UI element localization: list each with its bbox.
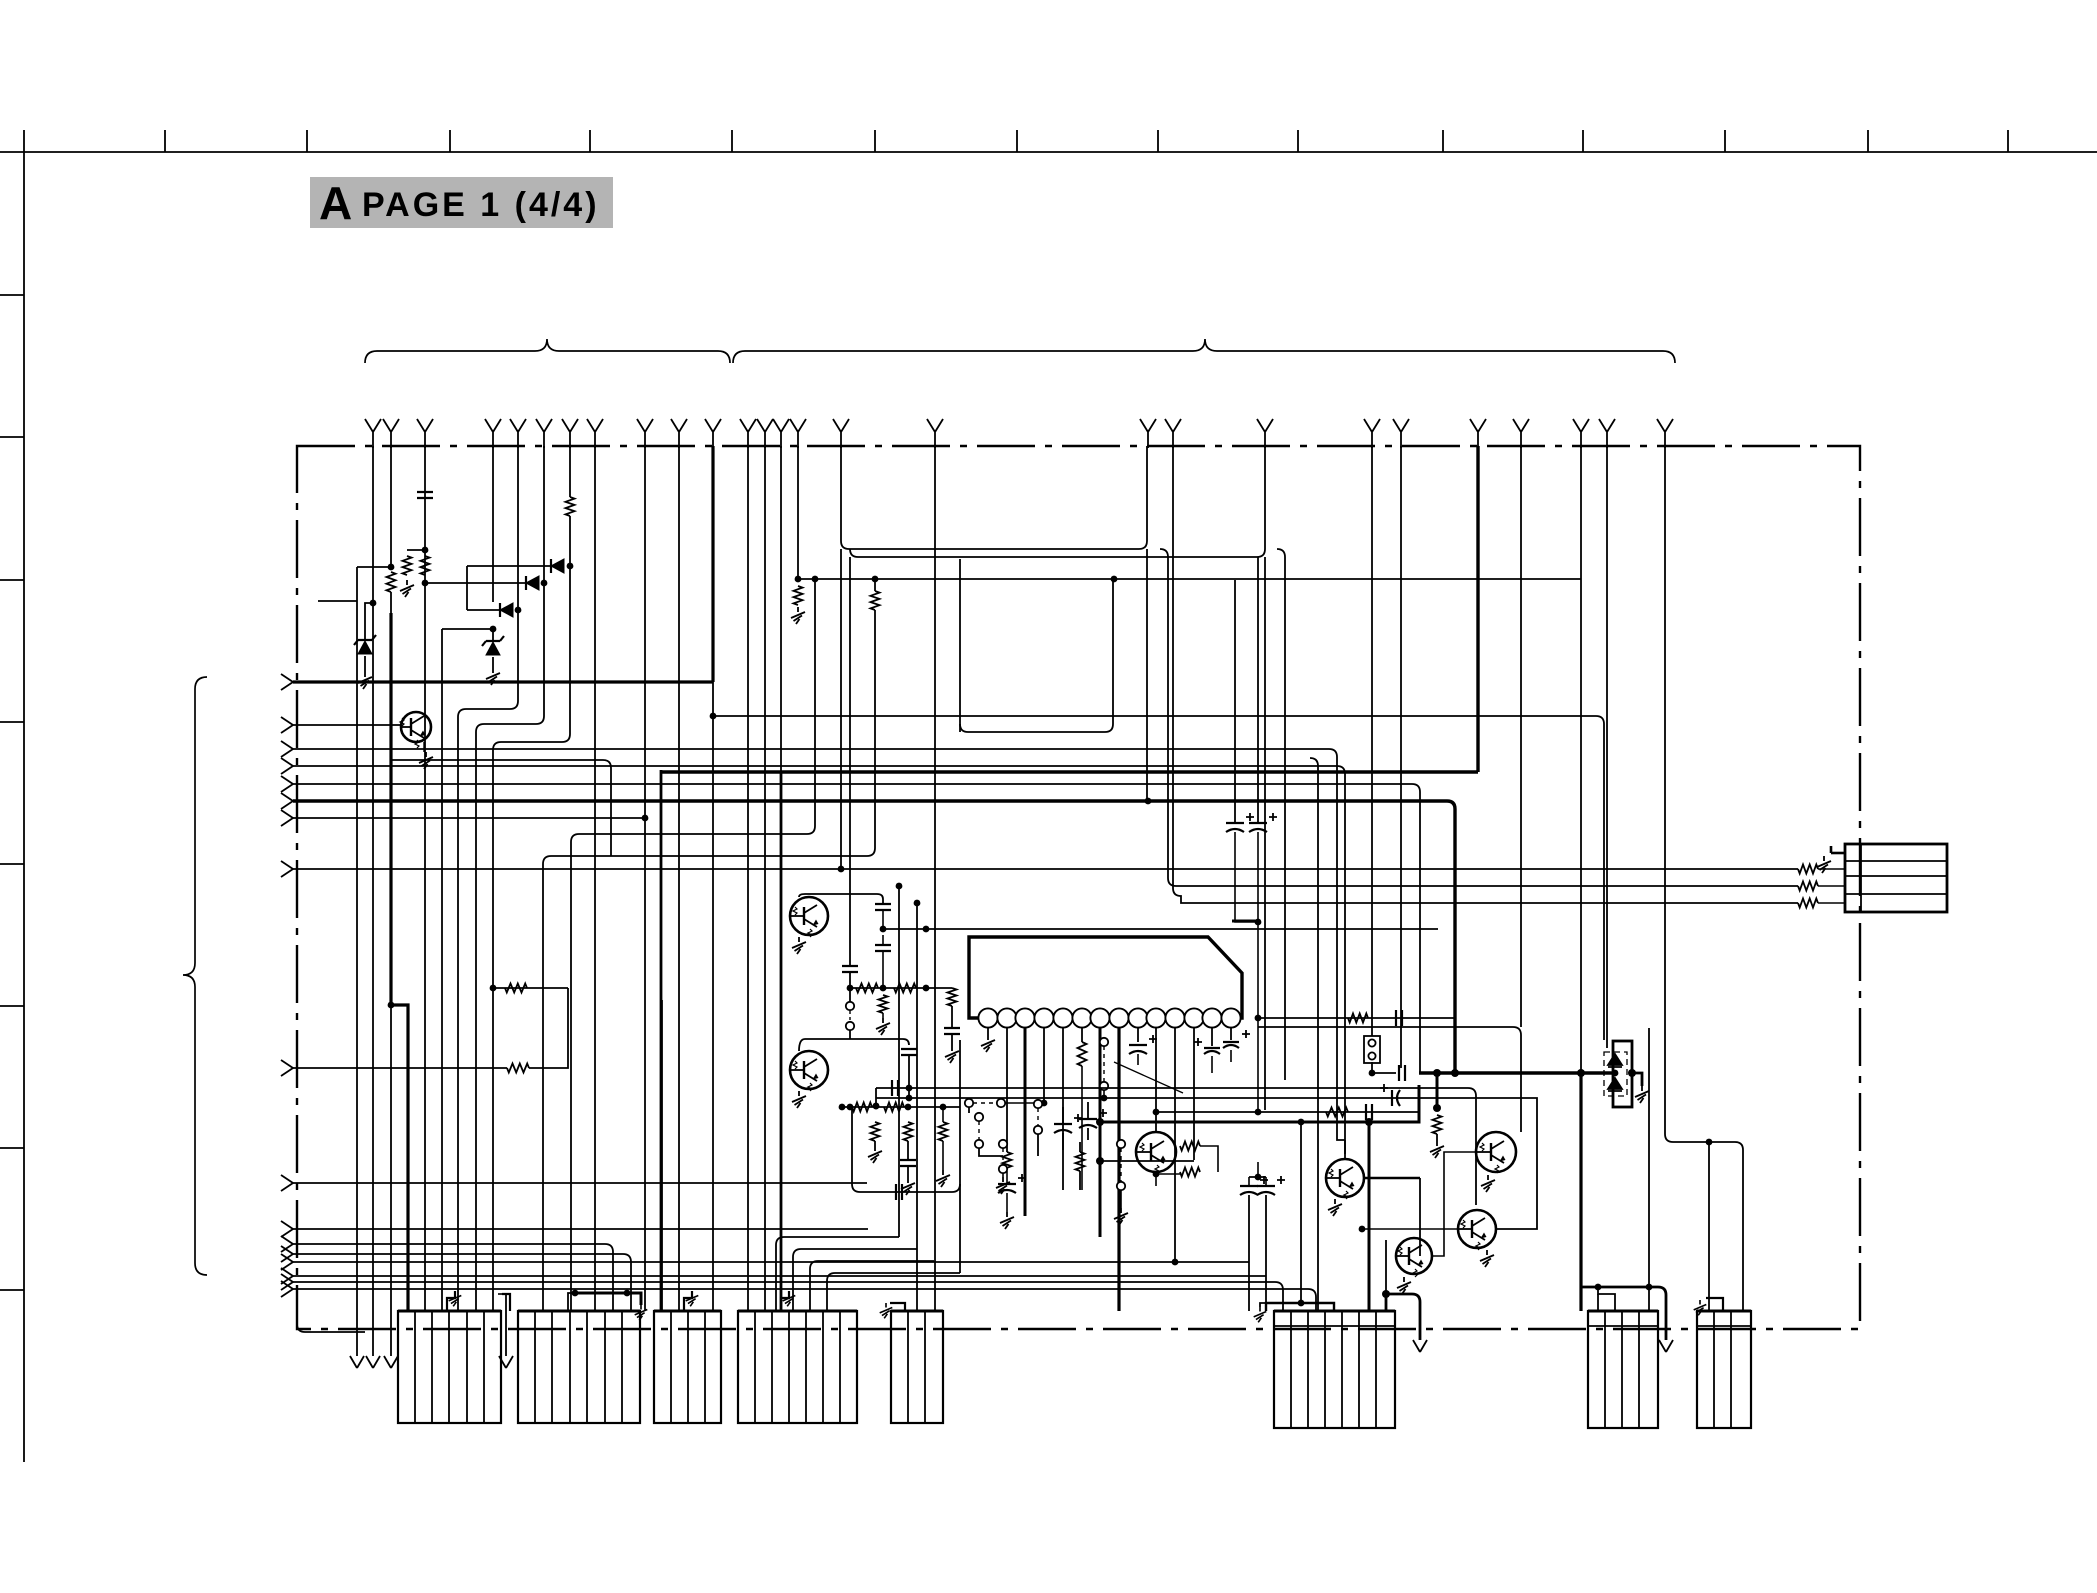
wire entry (top) xyxy=(417,419,433,448)
wire entry (top) xyxy=(510,419,526,448)
wire to Q1 base xyxy=(293,724,401,726)
wire x=1607 xyxy=(1606,446,1608,1048)
brace xyxy=(183,677,207,1275)
wire entry (top) xyxy=(1470,419,1486,448)
capacitor C18 xyxy=(892,1080,898,1096)
resistor R1 xyxy=(387,572,396,592)
transistor Q4 xyxy=(1136,1132,1176,1173)
connector CN8 xyxy=(1697,1311,1751,1428)
net y=1027 to Q6 xyxy=(1258,1027,1521,1132)
wire y=929 xyxy=(883,928,1438,930)
wire xyxy=(1037,1134,1039,1156)
resistor R7 xyxy=(856,984,878,993)
capacitor C15 xyxy=(1079,1109,1107,1128)
capacitor C23 xyxy=(901,1049,917,1055)
wire x=850 xyxy=(849,557,851,966)
wire entry (left) xyxy=(281,1221,293,1237)
brace xyxy=(365,339,730,363)
resistor R26 xyxy=(939,1122,948,1141)
wire y=629 xyxy=(442,628,493,630)
wire entry (top) xyxy=(1573,419,1589,448)
capacitor C1 xyxy=(417,492,433,498)
wire U1 pin5 xyxy=(1062,1027,1064,1190)
net y=1098 xyxy=(876,1098,1537,1229)
wire x=518 jog to 458 xyxy=(458,446,518,1311)
wire y=1018 xyxy=(1258,1017,1455,1019)
wire entry (top) xyxy=(1599,419,1615,448)
wire U1 pin10 xyxy=(1155,1027,1157,1132)
connector CN1 xyxy=(398,1311,501,1423)
wire y=869 to CN9 pin1 xyxy=(293,868,1798,870)
wire x=357 xyxy=(356,567,358,1356)
wire xyxy=(627,1293,641,1305)
wire xyxy=(390,592,392,613)
capacitor C21 xyxy=(1396,1010,1402,1026)
ground xyxy=(635,1305,648,1320)
ground xyxy=(358,672,372,689)
jumper (dashed) xyxy=(978,1121,980,1140)
wire xyxy=(1120,1190,1122,1208)
ground xyxy=(1817,856,1831,873)
wire xyxy=(969,937,1242,1018)
wire entry (left) xyxy=(281,1268,293,1284)
wire entry (left) xyxy=(281,1236,293,1252)
wire Q5 xyxy=(1364,1177,1420,1180)
resistor R19 xyxy=(505,984,527,993)
wire y=988 xyxy=(850,987,952,989)
wire entry (top) xyxy=(705,419,721,448)
ground xyxy=(1430,1141,1444,1158)
wire hook CN5 xyxy=(890,1303,905,1311)
wire Q5 top xyxy=(1344,1140,1346,1159)
svg-text:A: A xyxy=(319,177,352,229)
wire xyxy=(1006,1193,1008,1212)
wire xyxy=(1087,1102,1089,1140)
wire xyxy=(505,1294,507,1356)
wire entry (top) xyxy=(1364,419,1380,448)
wire xyxy=(1257,832,1259,1112)
wire xyxy=(1002,1173,1004,1177)
wire U1 pin12 xyxy=(1193,1027,1195,1160)
wire xyxy=(1818,902,1845,904)
wire x=960 lower xyxy=(959,1040,961,1192)
wire (bold) x=781 lower xyxy=(780,772,783,1311)
wire jog to zener xyxy=(365,603,373,640)
diode D6 xyxy=(1608,1054,1622,1091)
dash-dot board outline xyxy=(297,446,1860,1329)
ground xyxy=(686,1291,699,1306)
ground xyxy=(400,580,414,597)
wire x=960 lower xyxy=(959,1192,961,1273)
ground xyxy=(1694,1300,1707,1315)
ground xyxy=(791,607,805,624)
wire entry (top) xyxy=(773,419,789,448)
jumper (dashed) xyxy=(1037,1108,1039,1126)
wire x=425 xyxy=(424,498,426,1311)
wire xyxy=(1249,1176,1266,1178)
wire xyxy=(1818,885,1845,887)
wire entry (left) xyxy=(281,776,293,792)
wire entry (top) xyxy=(485,419,501,448)
resistor R22 xyxy=(852,1103,872,1112)
wire x=1581 xyxy=(1580,446,1582,1073)
wire corner bottom-left xyxy=(297,1291,365,1332)
wire to CN9 pin3 xyxy=(1173,446,1798,903)
connector CN4 xyxy=(738,1311,857,1423)
wire y=1183 xyxy=(293,1182,867,1184)
resistor R10 xyxy=(948,988,957,1006)
resistor R16 xyxy=(1798,865,1818,874)
resistor R15 xyxy=(1180,1168,1200,1177)
wire end arrow xyxy=(1413,1340,1427,1352)
wire xyxy=(951,1006,953,1028)
resistor R17 xyxy=(1798,882,1818,891)
wire (bold) into CN6 xyxy=(1368,1122,1371,1311)
wire x=441 xyxy=(441,629,443,1311)
wire into CN6 xyxy=(1385,1240,1387,1294)
wire x=544 jog to 476 xyxy=(476,446,544,1311)
wire y=1244 into CN2 xyxy=(293,1244,613,1311)
capacitor C7 xyxy=(1223,1030,1250,1048)
wire end arrow xyxy=(384,1356,398,1368)
wire end arrow xyxy=(350,1356,364,1368)
connector CN5 xyxy=(891,1311,943,1423)
bus u-loop 1 xyxy=(841,446,1147,549)
wire xyxy=(875,1088,877,1106)
wire hook xyxy=(1632,1073,1642,1086)
bus wire (bold) y=682 xyxy=(293,680,713,683)
wire hook xyxy=(1831,852,1845,855)
bold stub xyxy=(1436,1073,1439,1108)
wire hook CN4 xyxy=(781,1291,789,1311)
wire entry (top) xyxy=(1165,419,1181,448)
wire y=1229 xyxy=(293,1228,868,1230)
connector CN6 xyxy=(1274,1311,1395,1428)
wire x=875 top xyxy=(874,579,876,591)
wire x=1665 into CN8 xyxy=(1665,446,1743,1311)
wire U1 pin11 xyxy=(1174,1027,1176,1262)
resistor R13 xyxy=(1326,1108,1348,1117)
ground xyxy=(1481,1175,1495,1192)
title block: A PAGE 1 (4/4) xyxy=(310,177,613,228)
wire entry (top) xyxy=(833,419,849,448)
wire x=1372 xyxy=(1371,446,1373,1036)
wire entry (top) xyxy=(1513,419,1529,448)
svg-text:PAGE 1 (4/4): PAGE 1 (4/4) xyxy=(362,186,600,224)
ground xyxy=(981,1035,995,1052)
wire entry (top) xyxy=(637,419,653,448)
wire x=899 xyxy=(898,886,900,1237)
bend wire 1 xyxy=(776,1237,899,1311)
wire to CN9 pin2 xyxy=(1160,549,1798,886)
wire xyxy=(1362,1228,1458,1230)
wire xyxy=(1257,1162,1259,1177)
wire U1 pin9 xyxy=(1137,1027,1139,1042)
wire entry (top) xyxy=(671,419,687,448)
wire x=493 xyxy=(492,446,494,602)
capacitor C17 xyxy=(1257,1176,1285,1195)
wire entry (left) xyxy=(281,717,293,733)
resistor R9 xyxy=(879,995,888,1013)
ground xyxy=(1000,1212,1014,1229)
wire x=748 xyxy=(747,446,749,1311)
wire entry (top) xyxy=(757,419,773,448)
resistor R28 xyxy=(1003,1152,1012,1171)
wire U1 pin2 xyxy=(1006,1027,1008,1152)
op-amp U1 pins 1-14 xyxy=(978,1008,997,1027)
wire y=1282 into CN6 xyxy=(293,1282,1283,1311)
wire xyxy=(1648,1028,1650,1311)
connector CN3 xyxy=(654,1311,721,1423)
wire entry (left) xyxy=(281,1060,293,1076)
wire x=765 xyxy=(764,446,766,1311)
capacitor C11 xyxy=(1366,1104,1372,1120)
wire entry (top) xyxy=(1657,419,1673,448)
wire xyxy=(1005,1102,1041,1104)
wire x=1318 xyxy=(1310,758,1318,1311)
wire x=425 xyxy=(424,446,426,497)
ground xyxy=(996,1177,1010,1194)
wire hook CN8 xyxy=(1706,1298,1723,1311)
capacitor C14 xyxy=(1054,1114,1082,1133)
capacitor C20 xyxy=(1129,1035,1157,1054)
wire entry (top) xyxy=(927,419,943,448)
wire entry (top) xyxy=(1393,419,1409,448)
wire end arrow xyxy=(1659,1340,1673,1352)
connector CN9 xyxy=(1845,844,1947,912)
net y=1107 xyxy=(842,1106,960,1108)
resistor R6 xyxy=(794,586,803,605)
wire x=917 into CN5 xyxy=(916,903,918,1311)
diode D3 xyxy=(500,603,513,617)
transistor Q7 xyxy=(1458,1210,1496,1250)
bus u-loop 2 xyxy=(850,446,1265,557)
wire into CN6 xyxy=(1265,1195,1267,1311)
wire U1 pin13 xyxy=(1211,1027,1213,1046)
wire y=1161 xyxy=(1100,1160,1194,1162)
wire entry (left) xyxy=(281,741,293,757)
wire xyxy=(1419,1178,1421,1256)
wire bend up xyxy=(529,988,568,1068)
wire (bold) U1 pin3 xyxy=(1024,1027,1027,1216)
bold wire to CN7 xyxy=(1579,1073,1582,1311)
wire jog xyxy=(407,549,425,551)
wire xyxy=(849,1030,851,1039)
wire xyxy=(968,1107,970,1113)
wire x=960 upper xyxy=(959,559,961,732)
capacitor C19 xyxy=(998,1174,1026,1193)
diode D1 xyxy=(551,559,564,573)
wire x=679 xyxy=(678,446,680,1311)
wire entry (top) xyxy=(790,419,806,448)
bold tie CN2 xyxy=(575,1292,627,1295)
ground xyxy=(1328,1199,1342,1216)
jumper (dashed) xyxy=(1120,1140,1122,1186)
wire xyxy=(1103,1090,1105,1098)
wire xyxy=(364,656,366,672)
jumper J1 xyxy=(1364,1036,1380,1063)
wire xyxy=(1062,1107,1064,1150)
bus wire (bold) y=1073 xyxy=(1419,1071,1613,1074)
wire xyxy=(851,1107,853,1131)
capacitor C3 xyxy=(875,945,891,951)
transistor Q8 xyxy=(1396,1238,1432,1277)
wire bracket CN6 xyxy=(1266,1303,1334,1311)
wire x=373 xyxy=(372,446,374,1356)
resistor R8 xyxy=(894,984,916,993)
wire entry (top) xyxy=(740,419,756,448)
wire y=1068 xyxy=(293,1067,507,1069)
wire y=1289 into CN6 xyxy=(293,1289,1316,1311)
wire xyxy=(1211,1056,1213,1073)
wire xyxy=(882,910,884,929)
diode D2 xyxy=(526,576,539,590)
loop wire 579->U2 xyxy=(960,581,1113,732)
wire hook CN1 xyxy=(447,1291,455,1311)
wire xyxy=(568,1293,575,1311)
wire end arrow xyxy=(366,1356,380,1368)
resistor R29 xyxy=(1348,1014,1368,1023)
bold vertical x=661 xyxy=(660,770,663,1311)
wire entry (left) xyxy=(281,758,293,774)
wire xyxy=(942,1107,944,1170)
wire entry (left) xyxy=(281,674,293,690)
net y=1088 xyxy=(876,1088,1476,1205)
resistor R2 xyxy=(403,556,412,575)
wire xyxy=(849,972,851,1002)
wire hook CN2 xyxy=(502,1294,510,1311)
wire x=570 xyxy=(569,446,571,497)
wire xyxy=(1249,1177,1266,1186)
bold tie xyxy=(1232,920,1258,923)
resistor R20 xyxy=(507,1064,529,1073)
wire y=567 xyxy=(357,566,391,568)
wire (bold) U1 pin8 xyxy=(1117,1027,1120,1311)
wire xyxy=(492,629,494,641)
transistor Q2 xyxy=(790,897,828,937)
wire x=1521 xyxy=(1520,446,1522,1027)
wire x=841 xyxy=(840,549,842,869)
wire xyxy=(874,1141,876,1146)
wire entry (left) xyxy=(281,1175,293,1191)
transistor Q1 xyxy=(400,712,431,748)
wire y=610 xyxy=(467,609,500,611)
capacitor C5 xyxy=(944,1028,960,1034)
bold wire to arrow xyxy=(1386,1294,1420,1340)
wire U1 pin4 xyxy=(1043,1027,1045,1103)
ground xyxy=(876,1018,890,1035)
photocoupler PC1 xyxy=(1613,1041,1632,1107)
wire xyxy=(423,742,425,752)
wire xyxy=(1432,1152,1475,1256)
ground xyxy=(486,668,500,685)
wire entry (top) xyxy=(587,419,603,448)
wire entry (left) xyxy=(281,1274,293,1290)
wire entry (left) xyxy=(281,793,293,809)
capacitor C16 xyxy=(1240,1176,1268,1195)
wire y=988 left xyxy=(493,987,568,989)
wire U1 pin6 xyxy=(1081,1027,1083,1042)
wire (bold) x=1478 xyxy=(1476,446,1479,772)
connector CN7 xyxy=(1588,1311,1658,1428)
wire y=760 down at x=611 xyxy=(391,760,611,856)
wire xyxy=(1155,1172,1157,1186)
wire x=467 xyxy=(466,566,468,610)
wire x=391 lower xyxy=(390,1005,392,1356)
wire xyxy=(498,1293,506,1295)
wire y=1262 xyxy=(293,1261,1249,1263)
wire x=595 xyxy=(594,446,596,1311)
staircase wire x=815 to x=571 xyxy=(571,579,815,1311)
wire entry (left) xyxy=(281,1254,293,1270)
wire x=1147 xyxy=(1146,549,1148,801)
wire Q2 collector xyxy=(799,894,883,904)
bus wire (bold) y=801 bending down xyxy=(293,801,1455,1073)
wire y=749 into Q5 xyxy=(293,749,1345,1140)
ground xyxy=(783,1291,796,1306)
wire xyxy=(1260,1303,1266,1307)
bend wire 3 xyxy=(810,1261,934,1311)
wire x=1265 lower xyxy=(1264,557,1266,1110)
resistor R27 xyxy=(1076,1152,1085,1171)
wire y=818 xyxy=(293,817,645,819)
wire entry (top) xyxy=(1140,419,1156,448)
net y=579 xyxy=(798,578,1581,580)
wire xyxy=(1200,1146,1218,1172)
wire x=645 xyxy=(644,446,646,1311)
wire x=935 xyxy=(934,446,936,1311)
jumper (dashed) xyxy=(1103,1046,1105,1082)
wire entry (top) xyxy=(383,419,399,448)
page frame ruler top xyxy=(0,151,2097,153)
wire y=583 xyxy=(425,582,526,584)
wire into CN6 xyxy=(1248,1195,1250,1311)
ground xyxy=(792,937,806,954)
wire xyxy=(849,1011,851,1021)
wire xyxy=(1156,1173,1180,1175)
ground xyxy=(1480,1250,1494,1267)
zener diode D5 xyxy=(482,636,504,655)
wire xyxy=(1235,832,1258,922)
bend wire 4 xyxy=(827,1273,960,1311)
ground xyxy=(1397,1277,1411,1294)
jumper (dashed) xyxy=(973,1102,997,1104)
wire xyxy=(661,770,1478,773)
wire entry (top) xyxy=(365,419,381,448)
wire xyxy=(1079,1142,1081,1190)
ground xyxy=(880,1303,893,1318)
transistor Q6 xyxy=(1476,1132,1516,1173)
resistor R21 xyxy=(871,591,880,610)
transistor Q5 xyxy=(1326,1159,1364,1199)
wire xyxy=(882,1013,884,1018)
staircase wire x=875 to x=543 xyxy=(543,610,875,1311)
wire xyxy=(1081,1066,1083,1190)
ground xyxy=(1114,1208,1128,1225)
wire y=784 bending down xyxy=(293,784,1420,1073)
transistor Q3 xyxy=(790,1051,828,1091)
wire xyxy=(907,1166,909,1178)
wire xyxy=(1597,1294,1599,1311)
resistor R14 xyxy=(1180,1142,1200,1151)
wire U1 pin14 xyxy=(1230,1027,1232,1040)
wire x=1285 xyxy=(1277,549,1285,1080)
wire y=566 xyxy=(467,565,551,567)
capacitor C6 xyxy=(1194,1038,1220,1054)
ground xyxy=(792,1091,806,1108)
wire entry (left) xyxy=(281,1281,293,1297)
resistor R11 xyxy=(1078,1042,1087,1066)
